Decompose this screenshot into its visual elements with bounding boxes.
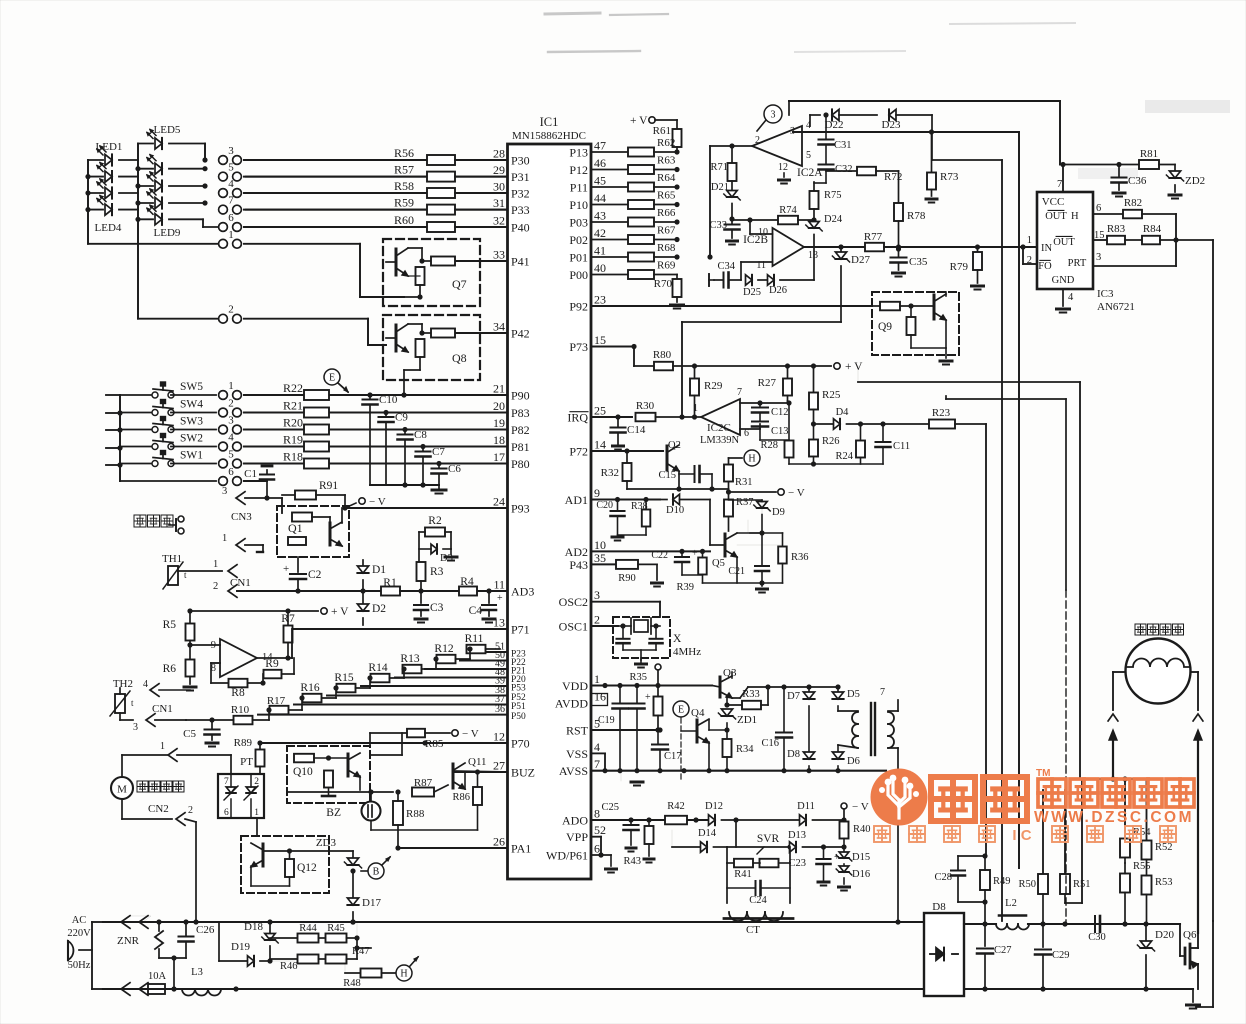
resistor R59 (394, 196, 508, 215)
svg-text:D7: D7 (787, 691, 800, 702)
pin 52 label VPP (566, 823, 606, 844)
svg-text:28: 28 (493, 147, 505, 161)
svg-text:8: 8 (594, 807, 600, 821)
svg-text:SW3: SW3 (180, 416, 203, 428)
svg-text:AN6721: AN6721 (1097, 301, 1135, 313)
svg-text:D17: D17 (362, 897, 381, 909)
label fan motor CJK (137, 781, 184, 792)
svg-text:6: 6 (224, 808, 229, 818)
diode D19 (219, 922, 270, 966)
diode D22 (810, 109, 877, 131)
svg-text:ZNR: ZNR (117, 935, 140, 947)
svg-text:3: 3 (133, 722, 138, 733)
terminal crystal node (655, 664, 661, 686)
capacitor C11 (861, 421, 911, 464)
resistor R26 (809, 424, 840, 467)
svg-text:R29: R29 (704, 380, 723, 392)
svg-text:R66: R66 (657, 207, 676, 219)
svg-text:C23: C23 (788, 858, 806, 869)
watermark weiku large CJK (931, 777, 1027, 821)
svg-text:IN: IN (1041, 243, 1052, 254)
op-amp IC2A (752, 120, 823, 184)
svg-text:1: 1 (228, 229, 234, 241)
svg-text:D18: D18 (244, 921, 263, 933)
resistor R4 (459, 576, 477, 596)
svg-text:21: 21 (493, 382, 505, 396)
svg-text:41: 41 (594, 244, 606, 258)
wire OSC2 row (591, 602, 660, 617)
connector CN2 arrow2 (148, 803, 196, 922)
wire SW2 row (244, 446, 307, 448)
svg-text:R31: R31 (735, 477, 753, 488)
wire P73 row (591, 344, 637, 366)
svg-text:C1: C1 (244, 468, 257, 480)
wire coil left lead (1113, 672, 1126, 710)
label thermostat CJK (134, 515, 184, 534)
resistor R7 (281, 611, 295, 661)
diode D20 (1137, 924, 1174, 989)
resistor R1 (363, 577, 459, 596)
svg-text:25: 25 (594, 404, 606, 418)
svg-text:Q9: Q9 (878, 321, 892, 333)
svg-text:C10: C10 (379, 394, 398, 406)
svg-text:D14: D14 (698, 828, 717, 839)
svg-text:D1: D1 (372, 564, 386, 576)
wire D27 to comparator (682, 322, 841, 417)
pin 50 label P22 (495, 650, 526, 668)
resistor R17 (267, 695, 305, 714)
wire pin row R64 (591, 186, 628, 188)
transistor block Q1 (277, 506, 349, 557)
wire SW4 row (244, 412, 307, 414)
svg-text:R39: R39 (676, 582, 694, 593)
svg-text:R58: R58 (394, 179, 414, 193)
wire pin 11 AD3 (477, 590, 508, 592)
resistor R45 (326, 923, 358, 959)
connector pair 5 (219, 449, 242, 468)
pin 11 label AD3 (493, 578, 534, 599)
svg-text:D8: D8 (932, 901, 946, 913)
wire row1 to Q7 (244, 244, 404, 297)
thermistor TH1 (162, 553, 222, 589)
capacitor C6 (432, 461, 462, 485)
pin 21 label P90 (493, 382, 530, 403)
diode D8b (787, 749, 814, 771)
svg-text:3: 3 (228, 415, 234, 427)
svg-text:R14: R14 (368, 662, 387, 674)
svg-text:D11: D11 (797, 801, 815, 812)
svg-text:R65: R65 (657, 190, 676, 202)
svg-text:C15: C15 (658, 470, 676, 481)
bridge rectifier D8 (924, 901, 964, 996)
wire Q2 emitter rail (627, 486, 729, 491)
pin 36 label P50 (495, 704, 526, 722)
LED LED9 (138, 205, 203, 239)
capacitor C34 (709, 261, 741, 288)
switch SW2 (120, 433, 216, 450)
pin 38 label P52 (495, 685, 526, 703)
connector coil right (1193, 714, 1203, 933)
resistor R38 (618, 500, 651, 536)
resistor R64 (628, 172, 680, 192)
pin 44 label P10 (569, 191, 606, 212)
svg-text:IC1: IC1 (540, 115, 559, 129)
svg-text:C12: C12 (771, 407, 789, 418)
svg-text:C19: C19 (598, 715, 615, 726)
svg-text:5: 5 (228, 162, 234, 174)
wire pin row R66 (591, 221, 628, 223)
svg-text:OUT: OUT (1045, 211, 1067, 222)
wire pin 32 P40 (246, 226, 508, 228)
wire R14 to R13 (401, 666, 406, 678)
heating coil circle (1126, 639, 1191, 704)
svg-text:220V: 220V (67, 928, 91, 939)
svg-text:AC: AC (72, 915, 87, 926)
svg-text:R26: R26 (822, 436, 840, 447)
resistor R63 (628, 155, 680, 175)
svg-text:36: 36 (495, 704, 505, 715)
resistor R29 (690, 366, 723, 420)
transistor block Q7 (383, 239, 480, 306)
svg-text:46: 46 (594, 156, 606, 170)
zener D21 (711, 182, 740, 222)
wire pin 18 P81 (326, 446, 508, 448)
svg-text:R77: R77 (864, 231, 883, 243)
resistor R77 (864, 231, 1037, 251)
svg-text:FO: FO (1038, 261, 1052, 272)
transistor Q4 (681, 707, 709, 771)
svg-text:− V: − V (369, 496, 386, 508)
wire Q3 emitter to rail (732, 684, 787, 698)
resistor R2 / diode D3 pair (419, 515, 457, 564)
pin 43 label P03 (569, 209, 606, 230)
svg-text:16: 16 (594, 690, 606, 704)
svg-text:ZD1: ZD1 (737, 714, 757, 726)
resistor R55 (1120, 861, 1151, 924)
connector pair 6 row (120, 466, 267, 485)
svg-text:D12: D12 (705, 801, 723, 812)
resistor R43 (623, 820, 653, 867)
svg-text:D19: D19 (231, 941, 250, 953)
LED LED7 (138, 172, 208, 192)
svg-text:D23: D23 (882, 119, 901, 131)
svg-text:LED4: LED4 (95, 222, 122, 234)
diode D11 (797, 801, 846, 825)
diode D6 (832, 745, 859, 771)
svg-text:R57: R57 (394, 163, 414, 177)
svg-text:4MHz: 4MHz (673, 646, 701, 658)
wire row2 to Q8 (244, 319, 386, 345)
svg-text:+: + (645, 692, 651, 703)
svg-text:R46: R46 (280, 961, 298, 972)
wire pin 39 P53 (361, 685, 508, 687)
pin 1 label VDD (562, 672, 600, 693)
svg-text:WWW.DZSC.COM: WWW.DZSC.COM (1034, 809, 1194, 826)
svg-text:R74: R74 (779, 205, 797, 216)
diode D26 (768, 275, 815, 296)
LED LED5 (138, 124, 205, 160)
pin 33 label P41 (493, 248, 530, 269)
pin 13 label P71 (493, 616, 530, 637)
wire P72 row (591, 448, 663, 453)
transistor block Q9 (872, 292, 959, 355)
transformer T (838, 687, 901, 925)
svg-text:R36: R36 (791, 552, 809, 563)
svg-text:D5: D5 (847, 689, 860, 700)
svg-text:VPP: VPP (566, 830, 588, 844)
svg-text:AD3: AD3 (511, 585, 534, 599)
svg-text:35: 35 (594, 551, 606, 565)
svg-text:P11: P11 (570, 181, 588, 195)
svg-text:R53: R53 (1155, 877, 1173, 888)
connector pair 1 (219, 380, 242, 399)
capacitor C9 (379, 410, 409, 485)
scan smudges top (545, 13, 1230, 179)
svg-text:R52: R52 (1155, 842, 1173, 853)
wire pin row R62 (591, 151, 628, 153)
pin 24 label P93 (493, 495, 530, 516)
wire coil right lead (1191, 672, 1199, 710)
wire input8 down (211, 663, 228, 683)
svg-text:26: 26 (493, 835, 505, 849)
svg-text:1: 1 (1027, 235, 1032, 246)
resistor R21 (283, 399, 329, 418)
connector pin pair 7 (219, 195, 242, 214)
inductor L3 (182, 967, 236, 996)
wire pin 19 P82 (326, 429, 508, 431)
op-amp IC2C LM339N (693, 387, 749, 446)
svg-text:4: 4 (228, 178, 234, 190)
capacitor C17 (652, 727, 682, 771)
transistor Q11 (453, 756, 508, 789)
resistor R9 (260, 658, 294, 686)
svg-text:2: 2 (188, 805, 193, 816)
svg-text:R15: R15 (334, 672, 353, 684)
svg-text:E: E (329, 373, 335, 384)
resistor R72 (826, 167, 902, 183)
wire P93 node (342, 495, 347, 511)
LED LED2 (88, 163, 138, 183)
capacitor C24 (727, 863, 790, 906)
circled E2 (673, 701, 689, 779)
zener ZD1 (718, 696, 757, 730)
svg-text:IC2B: IC2B (743, 234, 768, 246)
svg-text:BUZ: BUZ (511, 766, 535, 780)
pin 51 label P23 (495, 642, 526, 660)
resistor R36 (737, 533, 809, 583)
svg-text:− V: − V (462, 728, 479, 740)
diode D4 (814, 407, 864, 429)
connector CN1 arrow 2 (213, 581, 298, 597)
circled H bottom (396, 957, 418, 981)
zener ZD2 (1166, 165, 1205, 199)
switch SW3 (120, 416, 216, 433)
capacitor C5 (183, 720, 219, 747)
resistor R41 trimmer (727, 847, 790, 880)
watermark electronics market CJK (1038, 779, 1194, 807)
wire buzzer bottom rail (371, 821, 478, 831)
capacitor C29 (1035, 924, 1070, 989)
svg-text:WD/P61: WD/P61 (546, 849, 588, 863)
wire pin 34 P42 (455, 332, 508, 334)
wire PT pin1 to Q12 (256, 818, 258, 836)
svg-text:R83: R83 (1107, 223, 1126, 235)
switch SW4 (120, 399, 216, 416)
svg-text:R91: R91 (319, 480, 338, 492)
zener D24 (806, 214, 843, 280)
pin 8 label ADO (562, 807, 600, 828)
circled E near Q7 (324, 369, 348, 392)
svg-text:C14: C14 (627, 424, 646, 436)
connector pin pair 6 (219, 212, 242, 231)
wire pin 49 P21 (425, 668, 508, 670)
wire P92 row (591, 305, 872, 307)
varistor ZNR (117, 922, 163, 958)
capacitor C22 (651, 548, 702, 575)
pin 14 label P72 (569, 438, 606, 459)
svg-text:P02: P02 (569, 233, 588, 247)
wire pin 26 PA1 (398, 847, 508, 849)
opto-coupler PT (218, 774, 264, 818)
wire to right edge (1176, 240, 1213, 921)
svg-text:2: 2 (755, 135, 760, 146)
resistor R87 (412, 777, 448, 797)
svg-text:C20: C20 (596, 500, 613, 511)
resistor R85 (370, 728, 479, 750)
svg-text:P82: P82 (511, 423, 530, 437)
svg-text:+: + (283, 563, 289, 575)
pin 26 label PA1 (493, 835, 531, 856)
transistor Q5 (712, 533, 762, 583)
wire SW3 row (244, 429, 307, 431)
capacitor C23 (788, 847, 840, 886)
svg-text:SW4: SW4 (180, 399, 203, 411)
svg-text:10: 10 (594, 538, 606, 552)
resistor R67 (628, 225, 680, 245)
thermistor TH2 (110, 678, 190, 720)
svg-text:20: 20 (493, 399, 505, 413)
svg-text:R2: R2 (428, 515, 442, 527)
svg-text:R81: R81 (1140, 148, 1158, 160)
svg-text:Q7: Q7 (452, 277, 467, 291)
svg-text:+ V: + V (630, 115, 648, 127)
svg-text:Q10: Q10 (293, 766, 313, 778)
terminal -V mid (729, 487, 805, 499)
pin 47 label P13 (569, 139, 606, 160)
svg-text:C9: C9 (395, 412, 408, 424)
resistor R46 (270, 955, 324, 973)
wire WD row (591, 852, 617, 872)
resistor R51 (1060, 790, 1091, 903)
wire SW1 row (244, 463, 307, 465)
ground AVSS (621, 771, 643, 786)
svg-text:R35: R35 (629, 672, 647, 683)
svg-text:C25: C25 (601, 802, 619, 813)
capacitor C12 (752, 403, 789, 421)
watermark TM (1036, 768, 1050, 779)
svg-text:P30: P30 (511, 154, 530, 168)
svg-text:LED5: LED5 (154, 124, 181, 136)
svg-text:− V: − V (852, 801, 869, 813)
svg-text:R23: R23 (932, 407, 951, 419)
svg-text:R18: R18 (283, 450, 303, 464)
svg-text:6: 6 (228, 212, 234, 224)
svg-text:C24: C24 (749, 895, 767, 906)
svg-text:P13: P13 (569, 146, 588, 160)
diode D14 (672, 828, 727, 852)
resistor R18 (283, 450, 329, 469)
wire row R56 (244, 159, 427, 161)
svg-text:OSC1: OSC1 (559, 620, 588, 634)
capacitor C19 (598, 686, 628, 772)
pin 6 label WD/P61 (546, 842, 600, 863)
terminal +V mid (834, 361, 863, 373)
wire pin 27 BUZ (455, 771, 508, 773)
svg-text:IC3: IC3 (1097, 288, 1114, 300)
wire line from D23 (932, 160, 1002, 921)
wire R51 to coil left (1081, 779, 1083, 903)
wire opamp out to P71 (257, 629, 292, 658)
svg-text:C32: C32 (835, 164, 853, 175)
connector CN1 lower arrows (133, 703, 186, 733)
svg-text:R84: R84 (1143, 223, 1162, 235)
svg-text:X: X (673, 633, 682, 645)
resistor R69 (628, 260, 677, 280)
resistor R14 (368, 662, 404, 682)
capacitor C20 (596, 500, 624, 541)
connector CN3 arrow 2 (222, 533, 263, 552)
svg-text:11: 11 (493, 578, 505, 592)
LED LED8 (138, 189, 208, 209)
capacitor C35 (891, 249, 928, 277)
connector CN1 arrow 1 (213, 559, 251, 589)
wire FO pin2 (1020, 244, 1037, 264)
wire pin 21 P90 (326, 394, 508, 396)
wire pin row R68 (591, 256, 628, 258)
svg-text:P12: P12 (569, 163, 588, 177)
svg-text:12: 12 (493, 730, 505, 744)
capacitor C16 (761, 687, 792, 771)
wire pin 17 P80 (326, 463, 508, 465)
svg-text:C13: C13 (771, 426, 789, 437)
resistor R81 (1139, 148, 1175, 169)
svg-text:GND: GND (1052, 275, 1075, 286)
svg-text:R37: R37 (736, 497, 754, 508)
svg-text:C34: C34 (717, 261, 735, 272)
resistor R56 (394, 146, 508, 165)
svg-text:R79: R79 (950, 261, 969, 273)
svg-text:LED1: LED1 (96, 141, 123, 153)
wire P70 row (257, 740, 507, 745)
wire pin 13 P71 (292, 628, 508, 630)
svg-text:R72: R72 (884, 171, 902, 183)
connector pair 2 (219, 398, 242, 417)
ground Q9 (940, 348, 952, 365)
resistor R62 (628, 137, 680, 157)
svg-text:R85: R85 (425, 738, 444, 750)
diode D23 (882, 109, 932, 160)
svg-text:3: 3 (771, 110, 776, 121)
pin 34 label P42 (493, 320, 530, 341)
svg-text:C26: C26 (196, 924, 215, 936)
svg-text:+ V: + V (845, 361, 863, 373)
svg-text:R1: R1 (383, 577, 397, 589)
transistor block Q8 (383, 315, 480, 380)
IC IC1 MN158862HDC body (508, 115, 592, 879)
wire Q10 to R85 (370, 733, 402, 755)
wire ZNR C26 bottom (159, 955, 186, 991)
svg-text:C4: C4 (469, 605, 483, 617)
